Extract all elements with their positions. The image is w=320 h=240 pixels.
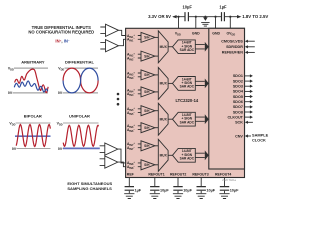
svg-text:DIFFERENTIAL: DIFFERENTIAL — [65, 59, 94, 64]
svg-text:S/H: S/H — [144, 54, 150, 58]
svg-text:1.8V TO 2.5V: 1.8V TO 2.5V — [242, 14, 268, 19]
svg-text:GND: GND — [212, 31, 220, 35]
svg-text:ARBITRARY: ARBITRARY — [21, 59, 45, 64]
svg-text:SDO2: SDO2 — [233, 79, 243, 83]
svg-text:0V: 0V — [8, 91, 13, 95]
svg-text:BIPOLAR: BIPOLAR — [24, 114, 42, 119]
svg-text:2320 TA01a: 2320 TA01a — [222, 178, 236, 182]
svg-text:SDO4: SDO4 — [233, 90, 244, 94]
svg-text:0V: 0V — [58, 147, 63, 151]
svg-text:SCK: SCK — [235, 121, 243, 125]
svg-text:CNV: CNV — [235, 134, 243, 138]
svg-text:VDD: VDD — [175, 31, 181, 36]
svg-text:MUX: MUX — [160, 154, 168, 158]
svg-text:10µF: 10µF — [230, 188, 239, 192]
svg-text:10µF: 10µF — [183, 188, 192, 192]
svg-text:S/H: S/H — [144, 163, 150, 167]
svg-text:SDO1: SDO1 — [233, 74, 243, 78]
svg-text:10µF: 10µF — [160, 188, 169, 192]
svg-text:SDR/DDR: SDR/DDR — [226, 45, 243, 49]
svg-text:VDD: VDD — [8, 66, 14, 71]
svg-text:MUX: MUX — [160, 45, 168, 49]
svg-text:3.3V OR 5V: 3.3V OR 5V — [148, 14, 171, 19]
svg-text:GND: GND — [192, 31, 200, 35]
svg-text:LTC2320-14: LTC2320-14 — [175, 98, 198, 103]
svg-text:SDO6: SDO6 — [233, 100, 243, 104]
svg-text:MUX: MUX — [160, 82, 168, 86]
svg-text:REF: REF — [127, 173, 135, 177]
svg-text:VDD: VDD — [9, 121, 15, 126]
svg-text:1µF: 1µF — [219, 4, 227, 9]
svg-text:SAR ADC: SAR ADC — [180, 48, 195, 52]
svg-text:SDO3: SDO3 — [233, 85, 243, 89]
svg-text:CMOS/LVDS: CMOS/LVDS — [221, 40, 243, 44]
svg-text:1µF: 1µF — [135, 188, 142, 192]
svg-text:S/H: S/H — [144, 144, 150, 148]
svg-text:S/H: S/H — [144, 36, 150, 40]
svg-text:REFOUT3: REFOUT3 — [192, 173, 208, 177]
svg-text:SDO7: SDO7 — [233, 105, 243, 109]
svg-text:10µF: 10µF — [182, 4, 192, 9]
svg-text:S/H: S/H — [144, 126, 150, 130]
svg-text:UNIPOLAR: UNIPOLAR — [69, 114, 90, 119]
svg-text:SAMPLING CHANNELS: SAMPLING CHANNELS — [67, 186, 112, 191]
svg-text:0V: 0V — [12, 147, 17, 151]
svg-text:VDD: VDD — [58, 66, 64, 71]
svg-text:REFOUT4: REFOUT4 — [215, 173, 231, 177]
svg-text:OVDD: OVDD — [226, 31, 235, 36]
svg-text:S/H: S/H — [144, 109, 150, 113]
svg-text:VDD: VDD — [57, 121, 63, 126]
svg-text:REFOUT1: REFOUT1 — [148, 173, 164, 177]
svg-text:NO CONFIGURATION REQUIRED: NO CONFIGURATION REQUIRED — [28, 29, 94, 34]
svg-text:REFBUF/EN: REFBUF/EN — [222, 51, 243, 55]
svg-text:SAR ADC: SAR ADC — [180, 120, 195, 124]
svg-text:MUX: MUX — [160, 117, 168, 121]
svg-text:SAR ADC: SAR ADC — [180, 85, 195, 89]
svg-text:CLOCK: CLOCK — [252, 138, 266, 143]
svg-text:CLKOUT: CLKOUT — [228, 115, 244, 119]
svg-text:SAR ADC: SAR ADC — [180, 156, 195, 160]
svg-text:IN+, IN–: IN+, IN– — [55, 39, 69, 44]
svg-text:SDO5: SDO5 — [233, 95, 243, 99]
svg-text:S/H: S/H — [144, 90, 150, 94]
svg-text:REFOUT2: REFOUT2 — [170, 173, 186, 177]
svg-text:0V: 0V — [58, 91, 63, 95]
svg-text:S/H: S/H — [144, 73, 150, 77]
svg-text:SDO8: SDO8 — [233, 110, 243, 114]
svg-text:10µF: 10µF — [206, 188, 215, 192]
